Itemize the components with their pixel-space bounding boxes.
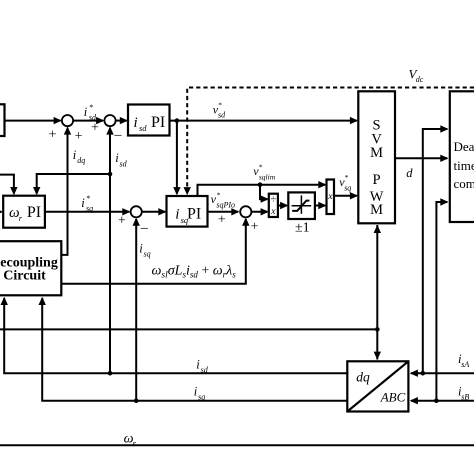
node v*_sqlim branch [258,182,263,187]
svg-text:sB: sB [461,393,469,402]
label i_dq [73,148,86,165]
wire omega_r bus [0,444,474,446]
svg-text:sq: sq [86,204,93,213]
plus sign S3 left input [118,213,126,228]
svg-text:sd: sd [218,111,226,120]
wire S2 to isd PI [116,117,128,124]
block dead-time compensation (cut off at image edge) [450,91,474,222]
summing junction S4 [240,206,251,217]
wire isd tap to omega PI [33,174,110,195]
wire divider to limiter [278,202,288,209]
svg-text:sq: sq [198,393,205,402]
wire left-block to sum S1 [5,117,62,124]
wire isA branch up to dead-time block [423,125,449,373]
svg-text:x: x [327,192,333,202]
block divider ratio [269,194,278,218]
block dq to ABC transform [347,361,408,411]
svg-text:Circuit: Circuit [3,269,46,284]
wire v*_sd from isd PI to SVM PWM [170,117,359,124]
wire i_dq from decoupling to S1 [61,126,71,255]
svg-text:ABC: ABC [380,389,406,404]
wire v*_sq from multiplier to SVM PWM [334,192,358,199]
wire isd bus from dqABC to decoupling [1,297,348,373]
svg-text:sq: sq [344,183,351,192]
svg-text:i: i [134,115,138,131]
label i_sq bus [194,385,205,402]
svg-text:i: i [84,105,88,119]
svg-text:sqPIo: sqPIo [216,200,235,209]
block SVM PWM [358,91,395,223]
svg-text:*: * [217,190,221,199]
block left (cut off at image edge) [0,104,5,136]
plus sign S4 left input [218,212,226,227]
svg-text:sd: sd [139,123,147,133]
node theta [375,327,380,332]
wire i_sd vertical from bus to S2 [106,126,113,373]
dashed Vdc wire [184,88,474,196]
svg-text:+: + [118,213,126,228]
svg-text:+: + [251,219,259,234]
svg-text:*: * [345,173,349,182]
wire omega PI to sum S3 [45,208,131,215]
wire S4 to divider [251,208,268,215]
plus sign S1 bottom input [75,129,83,144]
wire v*_sqPIo from isq PI to S4 [208,208,240,215]
minus sign S2 bottom input [114,127,123,142]
wire S1 to S2 [73,117,104,124]
node on v*_sd wire [175,118,180,123]
svg-text:sd: sd [201,366,209,375]
svg-text:PI: PI [151,114,165,131]
svg-text:sqlim: sqlim [259,173,276,182]
svg-text:Dead-: Dead- [454,139,474,154]
label d [406,166,413,180]
svg-text:+: + [91,121,99,136]
label v*_sqlim [253,163,275,182]
label +-1 [295,220,310,235]
wire feedforward from decoupling to S4 [61,218,249,284]
svg-text:*: * [259,163,263,172]
label v*_sqPIo [211,190,235,209]
svg-text:comp: comp [454,176,474,191]
svg-text:M: M [370,145,383,161]
summing junction S3 [131,206,142,217]
svg-text:dq: dq [77,156,85,165]
svg-text:+: + [49,128,57,143]
svg-text:x: x [270,207,276,217]
node isd tap [108,172,113,177]
svg-text:PI: PI [187,206,201,223]
plus sign S4 bottom input [251,219,259,234]
label i_sB [458,385,469,402]
svg-text:d: d [406,166,413,180]
label v*_sq [339,173,351,192]
svg-text:*: * [86,194,90,203]
svg-text:÷: ÷ [271,195,277,206]
wire isq feedback up to S3 [133,218,140,401]
label i*_sq [81,194,93,213]
svg-text:i: i [73,148,77,162]
wire S3 to isq PI [142,208,167,215]
plus sign S1 left input [49,128,57,143]
wire isB branch up to dead-time block [436,198,448,400]
svg-text:–: – [114,127,123,142]
block multiplier [327,180,335,215]
svg-text:±1: ±1 [295,220,310,235]
label i_sA [458,352,469,369]
svg-text:+: + [75,129,83,144]
wire v*_sqlim from isq PI top to multiplier [198,181,327,196]
block isq PI current controller [167,196,208,227]
summing junction S1 [62,115,73,126]
plus sign S2 left input [91,121,99,136]
block omega_r PI speed controller [3,196,45,228]
svg-text:sA: sA [461,360,469,369]
wire isB input [410,397,474,404]
wire isA input [410,370,474,377]
svg-text:*: * [218,101,222,110]
svg-text:sq: sq [144,250,151,259]
svg-text:dq: dq [356,369,370,384]
arrow into omega PI left edge [0,208,3,215]
node isd vertical on isd bus [108,371,113,376]
svg-text:sd: sd [120,159,128,168]
wire v*_sqlim branch to divider [260,185,269,203]
wire theta horizontal from left edge [0,328,377,330]
summing junction S2 [104,115,115,126]
svg-text:time: time [454,158,474,173]
wire limiter to multiplier [315,202,327,209]
svg-text:M: M [370,202,383,218]
wire d from SVM PWM to dead-time block [395,155,449,162]
wire omega reference into omega PI [0,175,18,196]
svg-text:i: i [175,207,179,223]
node isA branch [421,371,426,376]
svg-text:*: * [89,103,93,112]
svg-text:P: P [373,172,381,188]
label i_sd bus [196,358,208,375]
node isB branch [434,398,439,403]
label v*_sd [213,101,226,120]
svg-text:PI: PI [27,204,41,221]
node isq feedback on isq bus [134,398,139,403]
block isd PI current controller [128,105,170,136]
wire isq bus from dqABC to decoupling [39,297,348,401]
label i_sd vertical [115,151,127,168]
svg-text:dc: dc [416,75,424,84]
svg-text:i: i [81,196,85,210]
minus sign S3 bottom input [140,221,149,236]
wire v*_sd branch down to isq PI [173,121,180,196]
block limiter saturation +-1 [288,192,315,219]
svg-text:–: – [140,221,149,236]
label V_dc [409,67,424,84]
label i*_sd setpoint [84,103,97,122]
block Decoupling Circuit (cut off at image edge) [0,241,61,295]
label i_sq feedback [139,242,150,259]
wire theta vertical to SVM and dqABC [374,225,381,360]
label omega_sl sigma Ls isd + omega_r lambda_s [152,264,237,281]
label omega_r bus [124,432,137,448]
svg-text:+: + [218,212,226,227]
